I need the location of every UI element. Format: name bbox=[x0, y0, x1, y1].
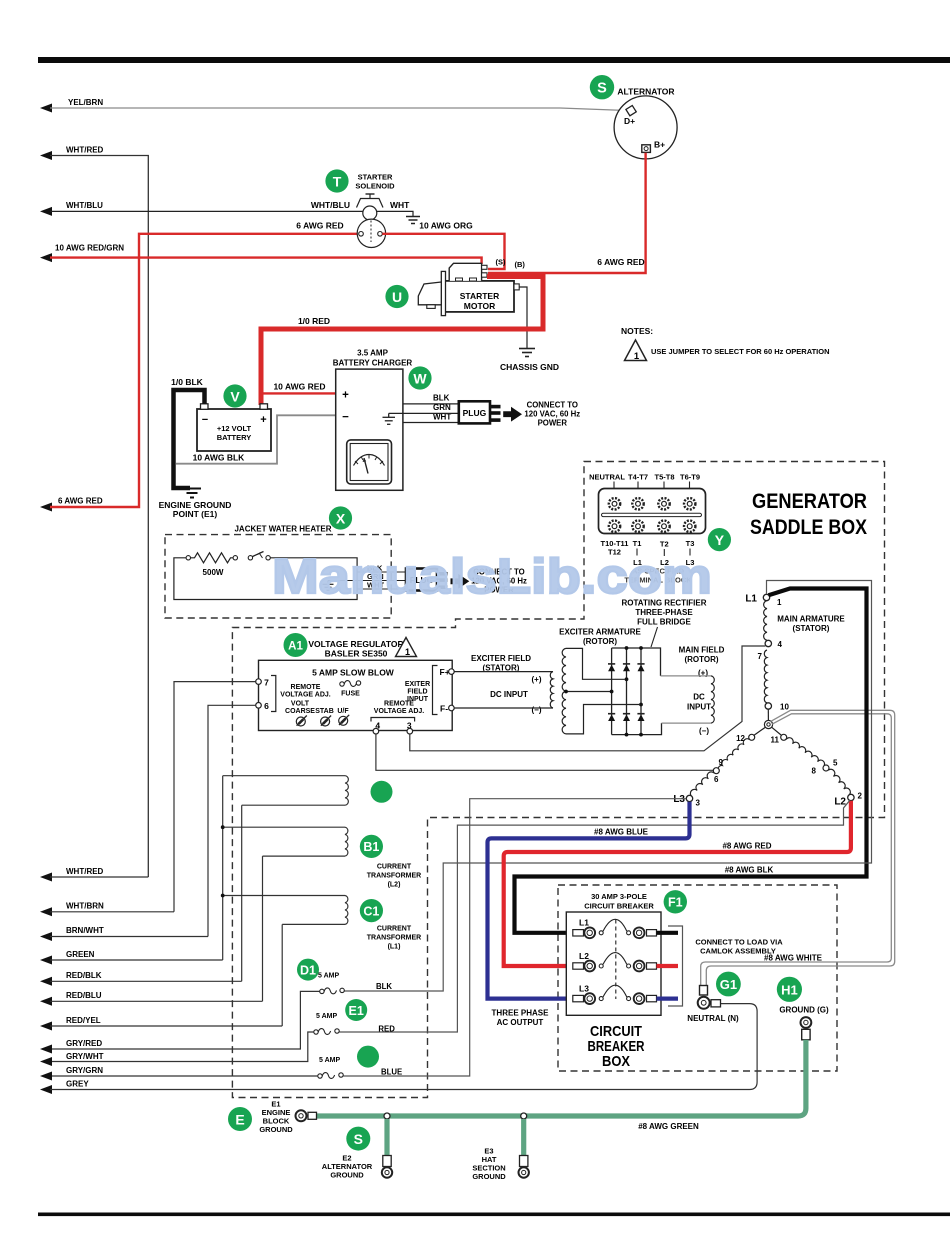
svg-text:S: S bbox=[597, 81, 607, 97]
svg-text:30 AMP 3-POLE: 30 AMP 3-POLE bbox=[591, 892, 647, 901]
svg-text:VOLTAGE ADJ.: VOLTAGE ADJ. bbox=[280, 692, 330, 699]
ground ring terminal bbox=[801, 1017, 812, 1028]
svg-text:6 AWG RED: 6 AWG RED bbox=[597, 257, 644, 267]
svg-text:+: + bbox=[260, 414, 266, 426]
wire star to node 11 bbox=[772, 727, 782, 735]
E1 engine block ground ring terminal bbox=[296, 1110, 317, 1121]
12 volt battery bbox=[197, 404, 271, 451]
heater switch bbox=[248, 552, 270, 561]
rectifier pointer line bbox=[651, 627, 658, 647]
wire RED/BLK bbox=[40, 971, 242, 986]
B1 return vertical bbox=[262, 856, 264, 1001]
svg-text:#8 AWG BLK: #8 AWG BLK bbox=[725, 866, 774, 875]
badge D1 bbox=[297, 959, 319, 981]
neutral wire B bbox=[701, 714, 892, 986]
svg-text:10 AWG ORG: 10 AWG ORG bbox=[419, 221, 473, 231]
svg-text:L1: L1 bbox=[745, 594, 757, 605]
svg-text:X: X bbox=[336, 510, 346, 526]
node L1 bbox=[763, 594, 769, 600]
svg-text:U/F: U/F bbox=[337, 708, 349, 715]
CT 1 coil bbox=[345, 776, 348, 805]
svg-text:−: − bbox=[342, 412, 349, 424]
svg-text:RED/BLU: RED/BLU bbox=[66, 991, 102, 1000]
C1 return vertical bbox=[281, 924, 283, 1026]
svg-text:#8 AWG BLUE: #8 AWG BLUE bbox=[594, 828, 649, 837]
svg-text:5 AMP: 5 AMP bbox=[316, 1013, 337, 1020]
wire WHT/RED (top arrow, runs down left side to bottom arrow) bbox=[40, 146, 148, 878]
svg-text:RED/BLK: RED/BLK bbox=[66, 971, 102, 980]
node 9 bbox=[713, 768, 719, 774]
svg-text:(L2): (L2) bbox=[388, 882, 401, 889]
badge X heater bbox=[329, 506, 352, 529]
engine ground symbol bbox=[183, 489, 201, 498]
wire WHT/BRN bbox=[40, 902, 174, 917]
svg-text:T: T bbox=[333, 173, 342, 189]
green node E3 bbox=[521, 1113, 527, 1119]
arrow to 120VAC note (heater) bbox=[451, 574, 470, 589]
svg-text:BATTERY CHARGER: BATTERY CHARGER bbox=[333, 359, 413, 368]
exciter field coil bbox=[550, 672, 553, 708]
svg-text:CHASSIS GND: CHASSIS GND bbox=[500, 362, 559, 372]
svg-text:SADDLE BOX: SADDLE BOX bbox=[750, 515, 868, 539]
jacket water heater dashed box bbox=[165, 535, 391, 618]
svg-text:Y: Y bbox=[715, 532, 725, 548]
wire terminal 3 to armature node 4 bbox=[410, 646, 766, 751]
svg-text:T3: T3 bbox=[686, 539, 695, 548]
wire 10 AWG ORG solenoid to starter (S) bbox=[382, 234, 504, 269]
wire GREEN bbox=[40, 950, 223, 965]
regulator fuse symbol bbox=[340, 681, 361, 698]
E3 ground stub bbox=[521, 1119, 526, 1156]
svg-text:C1: C1 bbox=[363, 904, 379, 918]
svg-text:1: 1 bbox=[777, 598, 782, 607]
svg-text:STARTER: STARTER bbox=[358, 173, 393, 182]
svg-text:7: 7 bbox=[264, 678, 269, 688]
svg-text:TRANSFORMER: TRANSFORMER bbox=[367, 935, 421, 942]
svg-text:VOLTAGE ADJ.: VOLTAGE ADJ. bbox=[374, 708, 424, 715]
svg-text:MOTOR: MOTOR bbox=[464, 301, 495, 311]
badge A1 regulator bbox=[284, 633, 308, 657]
top border bar bbox=[38, 57, 950, 63]
B1 coil bbox=[345, 827, 348, 856]
svg-text:(S): (S) bbox=[496, 258, 507, 267]
main field coil bbox=[711, 676, 714, 723]
wire WHT/RED bottom bbox=[40, 867, 148, 882]
svg-text:PLUG: PLUG bbox=[463, 408, 487, 418]
wire chassis ground from starter motor bbox=[519, 287, 527, 348]
regulator warning triangle 1 bbox=[396, 638, 417, 658]
svg-text:GRY/WHT: GRY/WHT bbox=[66, 1052, 104, 1061]
svg-text:T1: T1 bbox=[633, 539, 642, 548]
charger output wires bbox=[403, 403, 459, 405]
circuit breaker dashed box bbox=[558, 885, 837, 1071]
heater element 500W resistor bbox=[186, 553, 237, 577]
diodes top row bbox=[608, 664, 645, 671]
wire rectifier minus to main field bbox=[662, 722, 712, 724]
svg-text:GENERATOR: GENERATOR bbox=[752, 489, 867, 513]
armature coil 6-3 bbox=[690, 772, 714, 796]
wire RED/YEL bbox=[40, 1016, 282, 1031]
svg-text:6 AWG RED: 6 AWG RED bbox=[296, 221, 343, 231]
current transformer C1 wires bbox=[223, 895, 345, 897]
svg-text:(−): (−) bbox=[532, 706, 542, 715]
terminal F+ bbox=[449, 669, 455, 675]
svg-text:6: 6 bbox=[714, 775, 719, 784]
wire regulator 6 to harness bbox=[208, 705, 256, 936]
heater internal ground bbox=[323, 581, 334, 591]
badge T solenoid bbox=[325, 169, 348, 192]
svg-text:GRY/RED: GRY/RED bbox=[66, 1039, 102, 1048]
node 5/8 bbox=[823, 765, 829, 771]
E2 ground stub bbox=[384, 1119, 389, 1156]
svg-text:NOTES:: NOTES: bbox=[621, 326, 653, 336]
svg-text:WHT/RED: WHT/RED bbox=[66, 867, 104, 876]
generator assembly dashed outline bbox=[232, 462, 884, 1098]
armature coil 11-5 bbox=[786, 738, 824, 766]
svg-text:INPUT: INPUT bbox=[407, 696, 429, 703]
wire GRY/GRN bbox=[40, 1066, 103, 1081]
badge U starter bbox=[385, 285, 408, 308]
arrow to 120VAC note bbox=[503, 407, 522, 422]
svg-text:(B): (B) bbox=[515, 260, 526, 269]
svg-text:#8 AWG RED: #8 AWG RED bbox=[722, 842, 771, 851]
svg-text:B1: B1 bbox=[363, 840, 379, 854]
svg-text:FULL BRIDGE: FULL BRIDGE bbox=[637, 618, 691, 627]
wire 10 AWG BLK charger minus to ground bbox=[176, 415, 336, 463]
svg-text:1: 1 bbox=[634, 351, 640, 362]
svg-text:5: 5 bbox=[833, 759, 838, 768]
breaker mechanical link bbox=[615, 920, 617, 1000]
wire WHT/BLU to starter solenoid bbox=[40, 201, 363, 216]
svg-text:YEL/BRN: YEL/BRN bbox=[68, 98, 103, 107]
svg-text:(ROTOR): (ROTOR) bbox=[583, 637, 617, 646]
svg-text:BATTERY: BATTERY bbox=[217, 433, 252, 442]
svg-text:B+: B+ bbox=[654, 140, 665, 150]
svg-text:GREY: GREY bbox=[66, 1080, 89, 1089]
wire node 10 to star point bbox=[767, 709, 769, 720]
exciter armature coil bbox=[562, 648, 566, 733]
wire #8 AWG BLK L1 to breaker bbox=[515, 589, 867, 933]
node 11 bbox=[781, 734, 787, 740]
svg-text:EXCITER FIELD: EXCITER FIELD bbox=[471, 654, 531, 663]
svg-text:4: 4 bbox=[778, 640, 783, 649]
svg-text:BRN/WHT: BRN/WHT bbox=[66, 926, 104, 935]
svg-text:TRANSFORMER: TRANSFORMER bbox=[367, 873, 421, 880]
exciter armature mid tap wire bbox=[566, 691, 610, 693]
svg-text:120 VAC, 60 Hz: 120 VAC, 60 Hz bbox=[524, 410, 580, 419]
svg-text:3.5 AMP: 3.5 AMP bbox=[357, 349, 388, 358]
exciter armature top tap wire bbox=[566, 648, 625, 679]
svg-text:D+: D+ bbox=[624, 116, 635, 126]
heater output wires bbox=[357, 571, 406, 573]
svg-text:REMOTE: REMOTE bbox=[291, 684, 321, 691]
svg-text:WHT/BRN: WHT/BRN bbox=[66, 902, 104, 911]
svg-text:USE JUMPER TO SELECT FOR 60 Hz: USE JUMPER TO SELECT FOR 60 Hz OPERATION bbox=[651, 347, 830, 356]
badge dot fuse3 bbox=[357, 1046, 379, 1068]
badge S alternator bbox=[590, 75, 614, 99]
svg-text:CAMLOK ASSEMBLY: CAMLOK ASSEMBLY bbox=[700, 947, 776, 956]
breaker output wires bbox=[657, 931, 679, 935]
svg-text:INPUT: INPUT bbox=[687, 703, 711, 712]
svg-text:9: 9 bbox=[719, 758, 724, 767]
regulator box bbox=[259, 660, 453, 730]
svg-text:RED/YEL: RED/YEL bbox=[66, 1016, 101, 1025]
svg-text:#8 AWG GREEN: #8 AWG GREEN bbox=[638, 1122, 699, 1131]
svg-text:GROUND: GROUND bbox=[472, 1172, 506, 1181]
badge V battery bbox=[223, 384, 246, 407]
potentiometer volt coarse bbox=[296, 716, 307, 727]
svg-text:THREE-PHASE: THREE-PHASE bbox=[635, 608, 693, 617]
wire terminal 4 to armature node 9 bbox=[376, 734, 713, 770]
potentiometer stab bbox=[321, 716, 332, 727]
svg-text:EXCITER ARMATURE: EXCITER ARMATURE bbox=[559, 628, 641, 637]
svg-text:CIRCUIT BREAKER: CIRCUIT BREAKER bbox=[584, 902, 654, 911]
bracket terminals 4/3 bbox=[371, 718, 415, 722]
armature coil 7-10 bbox=[764, 650, 767, 703]
svg-text:WHT/BLU: WHT/BLU bbox=[66, 201, 103, 210]
charger internal ground bbox=[383, 413, 396, 424]
svg-text:+12 VOLT: +12 VOLT bbox=[217, 424, 252, 433]
svg-text:G1: G1 bbox=[720, 977, 737, 992]
svg-text:1/0 RED: 1/0 RED bbox=[298, 316, 330, 326]
svg-text:E1: E1 bbox=[349, 1004, 364, 1018]
badge S alternator ground bbox=[346, 1127, 370, 1151]
diodes bottom row bbox=[608, 714, 645, 721]
svg-text:BLK: BLK bbox=[433, 394, 450, 403]
wire regulator 7 to harness bbox=[174, 682, 256, 912]
svg-text:BASLER SE350: BASLER SE350 bbox=[325, 649, 388, 659]
exciter armature bottom tap wire bbox=[566, 705, 639, 734]
wire #8 AWG GREEN bbox=[317, 1040, 806, 1116]
bracket terminals 7/6 bbox=[271, 676, 276, 712]
svg-text:CONNECT TO LOAD VIA: CONNECT TO LOAD VIA bbox=[695, 938, 783, 947]
svg-text:NEUTRAL: NEUTRAL bbox=[589, 473, 625, 482]
svg-text:GRY/GRN: GRY/GRN bbox=[66, 1066, 103, 1075]
svg-text:DC INPUT: DC INPUT bbox=[490, 690, 528, 699]
neutral wire A bbox=[706, 710, 894, 986]
camlok bracket bbox=[668, 926, 683, 1006]
rectifier bridge columns bbox=[612, 648, 641, 735]
svg-text:5 AMP: 5 AMP bbox=[318, 973, 339, 980]
neutral lug bbox=[700, 986, 708, 996]
svg-text:A1: A1 bbox=[288, 641, 303, 653]
svg-text:THREE PHASE: THREE PHASE bbox=[492, 1009, 550, 1018]
fuse E1 (RED) bbox=[314, 1013, 395, 1034]
svg-text:T6-T9: T6-T9 bbox=[680, 473, 700, 482]
wire GRY/WHT to fuse E1 bbox=[44, 1032, 314, 1062]
node L3 bbox=[686, 795, 692, 801]
wire star to node 12 bbox=[754, 727, 765, 735]
wire GRY/RED bbox=[40, 1039, 102, 1054]
node 10 bbox=[765, 703, 771, 709]
battery charger bbox=[333, 349, 413, 491]
badge F1 breaker bbox=[664, 890, 687, 913]
svg-text:RED: RED bbox=[378, 1025, 395, 1034]
starter solenoid bbox=[311, 173, 410, 248]
svg-text:D1: D1 bbox=[300, 963, 316, 977]
wire GRY/RED to fuse D1 bbox=[44, 991, 320, 1049]
svg-text:H1: H1 bbox=[781, 982, 798, 997]
svg-text:GROUND (G): GROUND (G) bbox=[779, 1006, 829, 1015]
alternator bbox=[614, 87, 677, 159]
svg-text:L2: L2 bbox=[579, 951, 589, 961]
bottom border bar bbox=[38, 1213, 950, 1217]
svg-text:W: W bbox=[413, 370, 427, 386]
wire YEL/BRN to alternator D+ bbox=[40, 98, 627, 113]
svg-text:10 AWG RED/GRN: 10 AWG RED/GRN bbox=[55, 244, 124, 253]
svg-text:5 AMP: 5 AMP bbox=[319, 1057, 340, 1064]
svg-text:WHT/RED: WHT/RED bbox=[66, 146, 104, 155]
svg-text:(+): (+) bbox=[532, 675, 542, 684]
svg-text:500W: 500W bbox=[203, 568, 224, 577]
badge G1 neutral bbox=[716, 972, 741, 997]
svg-text:STARTER: STARTER bbox=[460, 291, 500, 301]
svg-text:STAB: STAB bbox=[315, 708, 334, 715]
svg-text:ManualsLib.com: ManualsLib.com bbox=[272, 550, 712, 604]
node L2 bbox=[848, 794, 854, 800]
svg-text:COARSE: COARSE bbox=[285, 708, 315, 715]
svg-text:WHT/BLU: WHT/BLU bbox=[311, 200, 350, 210]
svg-text:L1: L1 bbox=[579, 918, 589, 928]
bracket F+/F- bbox=[433, 666, 438, 715]
wire BRN/WHT bbox=[40, 926, 208, 941]
svg-text:6 AWG RED: 6 AWG RED bbox=[58, 497, 103, 506]
svg-text:SOLENOID: SOLENOID bbox=[355, 182, 395, 191]
wire 6 AWG RED alternator B+ to starter (B) bbox=[488, 153, 646, 273]
svg-text:T2: T2 bbox=[660, 540, 669, 549]
wire #8 AWG RED L2 to breaker bbox=[504, 801, 851, 966]
rectifier top bus bbox=[612, 648, 661, 676]
svg-text:NEUTRAL (N): NEUTRAL (N) bbox=[687, 1014, 739, 1023]
wire 1/0 RED battery to starter B bbox=[261, 277, 543, 406]
badge Y saddle box bbox=[708, 528, 731, 551]
ground (solenoid WHT) bbox=[406, 217, 420, 224]
badge W charger bbox=[408, 366, 431, 389]
terminal block tick lines bbox=[614, 482, 690, 489]
breaker box bbox=[566, 912, 661, 1015]
svg-text:MAIN ARMATURE: MAIN ARMATURE bbox=[777, 615, 845, 624]
wire GRY/GRN to fuse 3 bbox=[44, 1075, 318, 1077]
svg-text:BOX: BOX bbox=[602, 1053, 630, 1070]
current transformer B1 wires bbox=[223, 826, 345, 828]
armature coil 8-2 bbox=[828, 769, 850, 795]
plug (charger) bbox=[459, 401, 501, 423]
wire 10 AWG RED/GRN to starter (S) bbox=[40, 244, 482, 265]
svg-text:GREEN: GREEN bbox=[66, 950, 95, 959]
terminal F- bbox=[449, 705, 455, 711]
neutral ring terminal bbox=[698, 997, 710, 1009]
svg-text:L3: L3 bbox=[579, 983, 589, 993]
svg-text:VOLTAGE REGULATOR: VOLTAGE REGULATOR bbox=[308, 639, 403, 649]
svg-text:10 AWG BLK: 10 AWG BLK bbox=[193, 453, 245, 463]
BLUE sense wire bbox=[343, 799, 686, 1076]
charger meter bbox=[347, 440, 392, 484]
note warning triangle 1 bbox=[625, 340, 647, 362]
terminal studs row 2 bbox=[609, 521, 696, 532]
svg-text:BLK: BLK bbox=[376, 982, 392, 991]
svg-text:CONNECT TO: CONNECT TO bbox=[527, 401, 578, 410]
fuse D1 (BLK) bbox=[318, 973, 392, 994]
terminal studs row 1 bbox=[609, 498, 696, 509]
wire WHT from solenoid to ground bbox=[377, 211, 413, 216]
terminal 6 bbox=[256, 703, 262, 709]
node 12 bbox=[749, 734, 755, 740]
AC input junction dots bbox=[625, 677, 629, 681]
badge dot CT1 bbox=[371, 781, 393, 803]
svg-text:FUSE: FUSE bbox=[341, 691, 360, 698]
rectifier bottom bus bbox=[612, 723, 662, 735]
svg-text:L3: L3 bbox=[673, 794, 685, 805]
armature coil 12-9 bbox=[718, 739, 749, 770]
svg-text:POWER: POWER bbox=[538, 419, 568, 428]
svg-text:GROUND: GROUND bbox=[259, 1125, 293, 1134]
fuse 3 (BLUE) bbox=[318, 1057, 402, 1078]
green node E2 bbox=[384, 1113, 390, 1119]
svg-text:(L1): (L1) bbox=[388, 944, 401, 951]
svg-text:5 AMP SLOW BLOW: 5 AMP SLOW BLOW bbox=[312, 668, 395, 678]
dashes below T1 T2 T3 bbox=[637, 549, 690, 557]
svg-text:12: 12 bbox=[736, 734, 745, 743]
node 4 bbox=[765, 640, 771, 646]
svg-text:AC OUTPUT: AC OUTPUT bbox=[497, 1018, 544, 1027]
svg-text:8: 8 bbox=[812, 767, 817, 776]
heater loop wiring bbox=[174, 558, 357, 600]
svg-text:(STATOR): (STATOR) bbox=[793, 624, 830, 633]
svg-text:WHT: WHT bbox=[390, 200, 410, 210]
svg-text:11: 11 bbox=[771, 736, 780, 745]
RED sense wire bbox=[339, 800, 850, 1032]
wire #8 AWG BLUE L3 to breaker bbox=[488, 802, 690, 999]
terminal block body bbox=[599, 489, 706, 534]
svg-text:DC: DC bbox=[693, 693, 705, 702]
svg-text:V: V bbox=[230, 388, 240, 404]
svg-text:POINT (E1): POINT (E1) bbox=[173, 509, 218, 519]
terminal 4 bbox=[373, 728, 379, 734]
terminal 3 bbox=[407, 728, 413, 734]
svg-text:1: 1 bbox=[405, 647, 410, 657]
chassis ground symbol bbox=[519, 349, 535, 357]
svg-text:F-: F- bbox=[440, 704, 448, 714]
svg-text:F1: F1 bbox=[668, 896, 683, 910]
BLK sense wire (thin companion) bbox=[344, 581, 871, 992]
svg-text:U: U bbox=[392, 289, 402, 305]
breaker pole L1 bbox=[573, 918, 657, 939]
svg-text:(−): (−) bbox=[699, 727, 709, 736]
C1 coil bbox=[345, 896, 348, 925]
svg-text:MAIN FIELD: MAIN FIELD bbox=[679, 646, 725, 655]
badge E engine ground bbox=[228, 1107, 252, 1131]
svg-text:6: 6 bbox=[264, 701, 269, 711]
plug (heater) bbox=[406, 569, 448, 591]
badge E1 fuse bbox=[345, 999, 367, 1021]
CT common vertical (GREEN) bbox=[222, 776, 224, 960]
svg-text:CURRENT: CURRENT bbox=[377, 926, 412, 933]
svg-text:7: 7 bbox=[758, 652, 763, 661]
armature coil 1-4 bbox=[764, 601, 767, 641]
wire GRY/WHT bbox=[40, 1052, 104, 1066]
svg-text:T4-T7: T4-T7 bbox=[628, 473, 648, 482]
wire RED/BLU bbox=[40, 991, 263, 1006]
svg-text:−: − bbox=[202, 414, 208, 426]
wire 10 AWG RED battery to charger bbox=[261, 392, 336, 394]
wire GREY to neutral bbox=[40, 1004, 757, 1094]
svg-text:VOLT: VOLT bbox=[291, 701, 310, 708]
svg-text:S: S bbox=[354, 1131, 363, 1147]
CT 1 wires bbox=[223, 775, 345, 777]
svg-text:10 AWG RED: 10 AWG RED bbox=[273, 382, 325, 392]
svg-text:FIELD: FIELD bbox=[407, 689, 427, 696]
badge B1 bbox=[360, 835, 383, 858]
